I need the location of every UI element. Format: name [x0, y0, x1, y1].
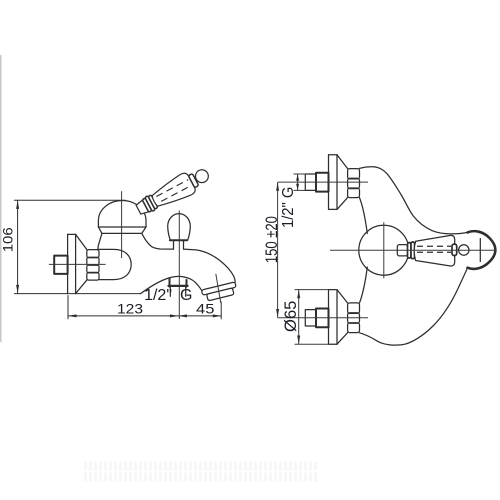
svg-text:150 ±20: 150 ±20 [263, 216, 281, 263]
svg-text:1/2" G: 1/2" G [280, 187, 297, 229]
svg-text:1/2": 1/2" [144, 287, 172, 304]
svg-text:45: 45 [196, 302, 214, 317]
svg-text:Ø65: Ø65 [282, 301, 300, 332]
svg-text:106: 106 [1, 227, 16, 252]
svg-text:123: 123 [117, 302, 143, 317]
svg-text:G: G [180, 287, 192, 304]
